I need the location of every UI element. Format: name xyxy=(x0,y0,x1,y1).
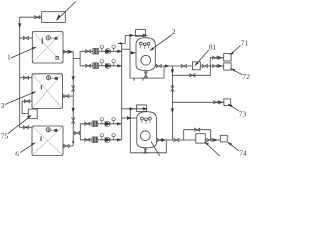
check valve row u1 xyxy=(105,49,110,54)
label 1 leader xyxy=(11,47,36,58)
wire: lower row 2 xyxy=(80,139,121,141)
label 73 leader xyxy=(228,104,239,110)
check valve row l2 xyxy=(105,137,110,142)
filter row l2 xyxy=(92,137,98,143)
valve V1 at box 1 inlet xyxy=(23,36,28,39)
leader to cut-off bottom label xyxy=(151,142,160,157)
wire: bypass below regulator xyxy=(172,66,210,75)
wire: tank 5 feed line xyxy=(122,108,147,110)
drain valve tank 5 xyxy=(144,148,147,153)
drain valve tank 2 xyxy=(144,72,147,77)
flow arrow on drop xyxy=(171,109,173,112)
valve at box 6 outlet xyxy=(64,144,69,147)
valve at tank 2 outlet xyxy=(156,64,161,67)
generator box 1 xyxy=(32,31,63,63)
wire: left supply bus xyxy=(19,17,21,127)
wire: drain header tank 2 xyxy=(130,77,164,79)
flow arrow row l2 xyxy=(117,139,120,141)
wire: tank 5 left entry with check xyxy=(122,117,137,119)
flow arrow on bus from box 6 xyxy=(72,139,74,142)
wire: branch up to box 71 xyxy=(210,58,224,66)
wire: box 3 outlet xyxy=(63,95,74,97)
valve on top header xyxy=(35,16,40,19)
wire: drain header tank 5 xyxy=(130,152,166,154)
gauge 2 row l2 xyxy=(112,134,115,140)
flow arrow on feed xyxy=(130,108,133,110)
valve to box 72 xyxy=(213,64,218,67)
wire: entry to box 3 xyxy=(20,77,32,79)
svg-text:71: 71 xyxy=(241,39,249,48)
check valve row u2 xyxy=(105,63,110,68)
valve V6 at box 6 inlet xyxy=(23,126,28,129)
tank 5 (lower vessel) xyxy=(137,112,157,148)
box 72 xyxy=(224,63,231,70)
check valve row l1 xyxy=(105,121,110,126)
gauge row l2 xyxy=(100,134,103,140)
wire: bypass above lower regulator xyxy=(184,130,211,140)
generator box 6 xyxy=(32,126,63,156)
flow arrow on feed xyxy=(130,34,133,36)
flow arrow row u2 xyxy=(118,65,121,67)
inline valve on bus (lower) xyxy=(72,118,75,123)
wire: upper splitter bus xyxy=(79,51,81,66)
label 71 leader xyxy=(231,46,241,55)
valve to box 71 xyxy=(213,56,218,59)
filter row u2 xyxy=(93,63,99,69)
flow arrow into main bus xyxy=(69,51,72,53)
wire: entry to box 6 xyxy=(20,126,32,128)
wire: drain riser to lower main xyxy=(165,140,167,153)
valve at box 1 outlet xyxy=(63,50,68,53)
flow arrow on bus upper xyxy=(72,77,74,80)
flow arrow on bypass drop xyxy=(171,70,173,73)
gauge row u1 xyxy=(100,45,103,51)
wire: join bus (continuous front bus) xyxy=(121,43,123,139)
valve after regulator xyxy=(202,64,207,67)
leader line to cut-off top label xyxy=(57,2,76,21)
valve row u1 xyxy=(86,50,91,53)
svg-text:3: 3 xyxy=(1,101,5,110)
valve at tank 5 outlet xyxy=(157,138,162,141)
flow arrow at fitting outlet xyxy=(143,34,146,36)
flow arrow at lower fitting outlet xyxy=(143,108,146,110)
wire: side pipe of tank 2 xyxy=(129,35,131,78)
flow arrow xyxy=(162,139,165,141)
label 2 leader xyxy=(151,35,173,50)
wire: top header from left bus to box 7 xyxy=(20,16,42,18)
check entry stub into tank 2 xyxy=(130,52,136,54)
filter row u1 xyxy=(93,48,99,54)
inline valve on bus (upper) xyxy=(72,86,75,91)
wire: box 6 outlet xyxy=(63,145,73,147)
box 71 xyxy=(224,54,231,61)
valve before regulator xyxy=(181,64,186,67)
regulator box 8 xyxy=(192,62,200,70)
wire: line to box 73 xyxy=(172,101,224,103)
wire: tank 2 drain stem xyxy=(145,71,147,79)
wire: lower splitter bus xyxy=(79,124,81,140)
wire: central vertical bus xyxy=(72,52,74,146)
valve to box 73 xyxy=(214,101,219,104)
valve V3 at box 3 inlet xyxy=(23,76,28,79)
wire: feed riser xyxy=(124,35,126,43)
generator box 3 xyxy=(32,74,63,109)
wire: entry to box 1 xyxy=(20,37,33,39)
wire: tank 2 feed line xyxy=(125,34,146,36)
wire: lower row 1 xyxy=(80,123,121,125)
wire: upper main line xyxy=(155,65,192,67)
wire: branch to lower splitter xyxy=(73,132,80,134)
wire: box 3 left port to box 75 xyxy=(22,101,32,113)
inline valve on drop xyxy=(171,86,174,91)
svg-text:73: 73 xyxy=(239,109,247,118)
small valve on lower branch xyxy=(74,131,79,134)
tank 2 (upper vessel) xyxy=(136,38,155,71)
gauge row u2 xyxy=(100,60,103,66)
box 73 xyxy=(224,99,231,106)
flow arrow to box 74 xyxy=(214,139,217,141)
wire: cross stub xyxy=(118,42,125,44)
wire: box 1 outlet xyxy=(63,51,73,53)
arrow on cross stub xyxy=(118,42,121,44)
box 74 xyxy=(220,135,227,142)
bypass valve xyxy=(190,74,195,77)
wire: tank 5 drain stem xyxy=(144,148,146,153)
flow arrow row l1 xyxy=(117,123,120,125)
fitting box on tank 2 xyxy=(136,30,146,37)
lower bypass valve xyxy=(195,128,200,131)
svg-text:72: 72 xyxy=(242,72,250,81)
flow arrow on bus xyxy=(72,108,74,111)
valve before lower regulator xyxy=(174,138,179,141)
fitting box on tank 5 xyxy=(137,105,147,112)
wire: long drop line to lower system xyxy=(171,75,173,140)
valve at box 3 outlet xyxy=(64,94,69,97)
box 75 xyxy=(28,109,37,119)
flow arrow to box 73 xyxy=(219,101,222,103)
label 3 leader xyxy=(5,92,35,105)
tick xyxy=(133,78,135,81)
wire: lower main line xyxy=(157,139,196,141)
tick xyxy=(142,78,144,81)
leader from lower regulator to cut-off label xyxy=(205,142,220,156)
label 72 leader xyxy=(231,69,243,75)
flow arrow to box 72 xyxy=(218,65,221,67)
label 81 leader xyxy=(195,50,209,65)
wire: drain riser to main line xyxy=(163,66,165,78)
gauge row l1 xyxy=(100,118,103,124)
svg-text:2: 2 xyxy=(172,27,176,36)
valve row l2 xyxy=(85,138,90,141)
arrowhead of top leader xyxy=(56,15,60,21)
valve after lower regulator xyxy=(207,138,212,141)
gauge 2 row u1 xyxy=(112,45,115,51)
svg-text:74: 74 xyxy=(239,148,247,156)
flow arrow to box 71 xyxy=(218,57,221,59)
svg-text:81: 81 xyxy=(209,43,217,52)
lower regulator box xyxy=(196,134,206,143)
label 6 leader xyxy=(20,143,34,152)
wire: side pipe of tank 5 xyxy=(129,109,131,153)
filter row l1 xyxy=(92,121,98,127)
valve row l1 xyxy=(85,122,90,125)
valve row u2 xyxy=(86,64,91,67)
flow arrow on left bus xyxy=(19,24,21,27)
label 74 leader xyxy=(228,143,239,151)
wire: upper row 2 xyxy=(80,65,122,67)
flow arrow row u1 xyxy=(118,50,121,52)
svg-text:75: 75 xyxy=(1,132,9,141)
svg-text:6: 6 xyxy=(15,150,19,156)
svg-text:1: 1 xyxy=(7,52,11,61)
gauge 2 row u2 xyxy=(112,60,115,66)
valve at box 3 left port xyxy=(24,100,29,103)
flow arrow xyxy=(165,65,168,67)
wire: upper row 1 xyxy=(80,50,122,52)
gauge 2 row l1 xyxy=(112,118,115,124)
wire: tank 2 left entry xyxy=(122,48,130,50)
label 75 leader xyxy=(8,116,31,134)
box 7 (top rectangle) xyxy=(42,12,66,23)
wire: branch to upper splitter xyxy=(73,57,80,59)
